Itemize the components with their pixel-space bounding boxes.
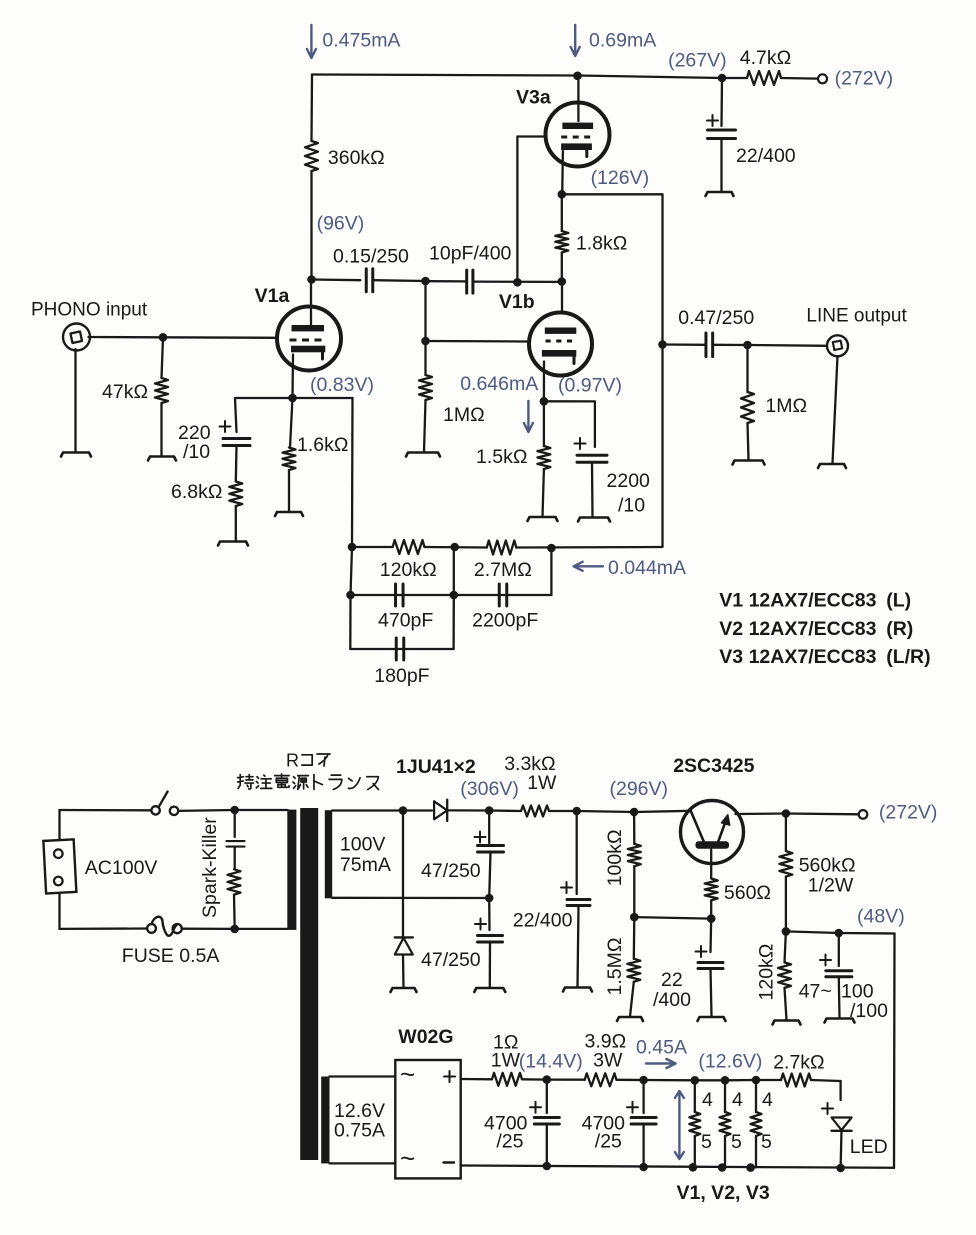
- svg-text:22: 22: [661, 969, 683, 991]
- svg-text:0.646mA: 0.646mA: [460, 373, 538, 395]
- svg-text:V3a: V3a: [516, 86, 551, 108]
- svg-text:V1 12AX7/ECC83 (L): V1 12AX7/ECC83 (L): [719, 590, 911, 612]
- svg-text:2.7MΩ: 2.7MΩ: [474, 559, 532, 581]
- svg-text:560kΩ: 560kΩ: [799, 855, 856, 877]
- svg-text:V1b: V1b: [499, 291, 535, 313]
- svg-text:4: 4: [702, 1089, 713, 1111]
- svg-text:10pF/400: 10pF/400: [429, 243, 512, 265]
- svg-text:(12.6V): (12.6V): [698, 1051, 762, 1073]
- svg-text:0.69mA: 0.69mA: [589, 30, 656, 52]
- svg-text:V1a: V1a: [255, 285, 290, 307]
- svg-text:4: 4: [732, 1089, 743, 1111]
- svg-text:/400: /400: [653, 989, 691, 1011]
- svg-text:2200pF: 2200pF: [472, 610, 538, 632]
- svg-text:4: 4: [762, 1089, 773, 1111]
- svg-text:AC100V: AC100V: [85, 857, 158, 879]
- svg-text:0.75A: 0.75A: [334, 1120, 385, 1142]
- svg-text:3W: 3W: [593, 1050, 623, 1072]
- svg-text:5: 5: [761, 1131, 772, 1153]
- svg-text:(272V): (272V): [879, 802, 938, 824]
- svg-text:Spark-Killer: Spark-Killer: [199, 817, 221, 918]
- svg-text:1W: 1W: [527, 772, 557, 794]
- svg-text:0.044mA: 0.044mA: [608, 557, 686, 579]
- svg-text:/10: /10: [618, 495, 645, 517]
- svg-text:(0.83V): (0.83V): [310, 374, 374, 396]
- svg-text:1/2W: 1/2W: [808, 875, 854, 897]
- svg-text:100V: 100V: [340, 834, 386, 856]
- svg-text:V2 12AX7/ECC83 (R): V2 12AX7/ECC83 (R): [719, 618, 913, 640]
- svg-text:2.7kΩ: 2.7kΩ: [773, 1052, 824, 1074]
- svg-text:1MΩ: 1MΩ: [765, 395, 807, 417]
- svg-text:47kΩ: 47kΩ: [102, 381, 148, 403]
- svg-text:22/400: 22/400: [513, 910, 573, 932]
- svg-text:V3 12AX7/ECC83 (L/R): V3 12AX7/ECC83 (L/R): [719, 646, 930, 668]
- svg-text:(0.97V): (0.97V): [558, 375, 622, 397]
- svg-text:(272V): (272V): [835, 68, 894, 90]
- svg-text:47/250: 47/250: [421, 949, 481, 971]
- svg-text:0.475mA: 0.475mA: [322, 30, 400, 52]
- svg-text:/25: /25: [496, 1131, 523, 1153]
- svg-text:1.5MΩ: 1.5MΩ: [604, 938, 626, 996]
- svg-text:5: 5: [731, 1131, 742, 1153]
- svg-text:5: 5: [701, 1131, 712, 1153]
- svg-text:FUSE 0.5A: FUSE 0.5A: [122, 945, 220, 967]
- svg-text:/10: /10: [183, 441, 210, 463]
- svg-text:2200: 2200: [607, 470, 651, 492]
- svg-text:(96V): (96V): [317, 213, 365, 235]
- svg-text:120kΩ: 120kΩ: [756, 944, 778, 1001]
- svg-text:22/400: 22/400: [736, 145, 796, 167]
- svg-text:180pF: 180pF: [374, 665, 429, 687]
- svg-text:/25: /25: [595, 1131, 622, 1153]
- svg-text:0.47/250: 0.47/250: [678, 307, 754, 329]
- svg-text:100kΩ: 100kΩ: [604, 829, 626, 886]
- svg-text:560Ω: 560Ω: [724, 882, 771, 904]
- svg-text:(306V): (306V): [460, 778, 519, 800]
- svg-text:~: ~: [400, 1143, 415, 1173]
- svg-text:(48V): (48V): [857, 906, 905, 928]
- svg-text:(126V): (126V): [591, 167, 650, 189]
- svg-text:6.8kΩ: 6.8kΩ: [171, 481, 222, 503]
- svg-text:(267V): (267V): [668, 50, 727, 72]
- svg-text:1.8kΩ: 1.8kΩ: [576, 233, 627, 255]
- svg-text:4.7kΩ: 4.7kΩ: [740, 47, 791, 69]
- svg-text:W02G: W02G: [398, 1026, 453, 1048]
- svg-text:R: R: [286, 751, 299, 771]
- svg-text:75mA: 75mA: [340, 854, 391, 876]
- svg-text:1.6kΩ: 1.6kΩ: [297, 434, 348, 456]
- svg-text:1W: 1W: [491, 1050, 521, 1072]
- svg-text:470pF: 470pF: [378, 610, 433, 632]
- svg-text:1JU41×2: 1JU41×2: [396, 756, 476, 778]
- svg-text:~: ~: [400, 1059, 415, 1089]
- svg-text:0.15/250: 0.15/250: [333, 246, 409, 268]
- svg-text:(296V): (296V): [610, 778, 669, 800]
- svg-text:LED: LED: [850, 1136, 888, 1158]
- svg-text:1.5kΩ: 1.5kΩ: [476, 446, 527, 468]
- svg-text:360kΩ: 360kΩ: [328, 147, 385, 169]
- svg-text:2SC3425: 2SC3425: [673, 755, 754, 777]
- svg-text:47~: 47~: [799, 981, 832, 1003]
- svg-text:47/250: 47/250: [421, 860, 481, 882]
- svg-text:/100: /100: [850, 1000, 888, 1022]
- svg-text:V1, V2, V3: V1, V2, V3: [677, 1182, 770, 1204]
- svg-text:1MΩ: 1MΩ: [443, 404, 485, 426]
- svg-text:(14.4V): (14.4V): [519, 1051, 583, 1073]
- svg-text:LINE output: LINE output: [806, 306, 907, 327]
- svg-text:PHONO input: PHONO input: [31, 300, 148, 321]
- svg-text:120kΩ: 120kΩ: [380, 559, 437, 581]
- svg-text:0.45A: 0.45A: [636, 1037, 687, 1059]
